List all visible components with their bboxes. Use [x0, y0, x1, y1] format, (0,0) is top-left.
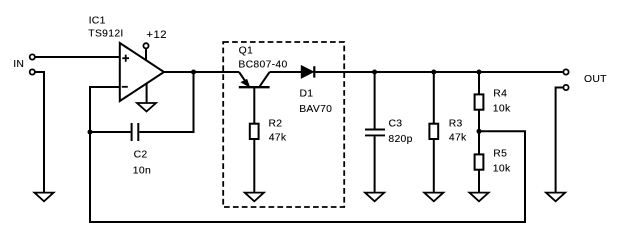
wire R2 to ground	[253, 140, 255, 192]
capacitor C3 top plate	[365, 129, 385, 131]
svg-text:R5: R5	[493, 149, 507, 160]
wire R5 to ground	[478, 170, 480, 192]
transistor Q1 emitter arrow	[242, 80, 249, 86]
node R3 junction dot	[431, 70, 436, 75]
transistor Q1 collector diagonal	[260, 72, 270, 86]
op-amp IC1 triangle	[120, 43, 164, 101]
svg-text:47k: 47k	[269, 132, 287, 143]
svg-text:IN: IN	[13, 59, 24, 70]
ground op-amp	[137, 103, 156, 111]
svg-text:BC807-40: BC807-40	[238, 60, 287, 71]
svg-text:R4: R4	[493, 89, 507, 100]
resistor R3 body	[429, 124, 438, 139]
svg-text:10k: 10k	[493, 164, 511, 175]
svg-text:BAV70: BAV70	[299, 104, 332, 115]
wire inverting input to feedback node	[90, 87, 119, 132]
svg-text:Q1: Q1	[239, 45, 253, 56]
wire R4 to R5	[478, 110, 480, 154]
wire Q1 base lead down to R2	[253, 87, 255, 124]
wire Q1 collector to diode D1	[270, 71, 302, 73]
wire C3 lower stem	[374, 136, 376, 192]
node output feedback junction dot	[191, 70, 196, 75]
wire feedback node to C2 left plate	[90, 131, 131, 133]
wire OUT lower to ground	[556, 88, 563, 193]
svg-text:R2: R2	[269, 119, 283, 130]
wire IN lower to left ground	[35, 72, 44, 192]
terminal IN upper circle	[30, 54, 35, 59]
svg-text:10n: 10n	[133, 165, 151, 176]
terminal IN lower circle	[30, 69, 35, 74]
wire IN upper to op-amp noninverting input	[35, 56, 119, 58]
op-amp minus input symbol	[122, 86, 128, 88]
wire C3 upper stem	[374, 72, 376, 129]
svg-text:+12: +12	[146, 29, 167, 41]
resistor R4 body	[475, 94, 484, 109]
svg-text:C3: C3	[389, 119, 403, 130]
diode D1 cathode bar	[313, 66, 315, 77]
svg-text:TS912I: TS912I	[88, 29, 123, 40]
wire +12 stem	[145, 49, 147, 61]
wire R4 upper stem	[478, 72, 480, 94]
wire feedback bottom run	[90, 131, 525, 222]
ground OUT	[546, 193, 565, 202]
op-amp plus input symbol	[122, 55, 129, 62]
resistor R5 body	[475, 154, 484, 169]
ground R5	[469, 193, 488, 202]
ground R2	[245, 193, 264, 202]
diode D1 anode triangle	[302, 66, 313, 77]
svg-text:47k: 47k	[449, 132, 467, 143]
transistor Q1 emitter diagonal	[239, 72, 248, 86]
terminal OUT upper circle	[563, 69, 568, 74]
dashed box around Q1 and D1	[223, 42, 344, 207]
svg-text:10k: 10k	[493, 104, 511, 115]
svg-text:D1: D1	[300, 89, 314, 100]
capacitor C2 right plate	[137, 123, 139, 141]
svg-text:R3: R3	[449, 119, 463, 130]
wire R3 upper stem	[433, 72, 435, 124]
svg-text:820p: 820p	[388, 134, 412, 145]
wire D1 to OUT terminal	[315, 71, 563, 73]
wire R3 to ground	[433, 140, 435, 192]
wire op-amp output to Q1 emitter	[164, 71, 239, 73]
wire op-amp ground stem	[146, 84, 148, 103]
capacitor C3 bottom plate	[365, 134, 385, 136]
terminal OUT lower circle	[563, 85, 568, 90]
transistor Q1 base bar	[239, 86, 270, 88]
ground left (IN return)	[34, 193, 53, 202]
node feedback C2 left dot	[88, 130, 93, 135]
node R4 R5 junction dot	[477, 129, 482, 134]
svg-text:C2: C2	[134, 149, 148, 160]
capacitor C2 left plate	[131, 123, 133, 141]
resistor R2 body	[250, 124, 259, 139]
wire junction down to C2 right plate	[139, 72, 193, 132]
node C3 junction dot	[372, 70, 377, 75]
node R4 junction dot	[477, 70, 482, 75]
svg-text:OUT: OUT	[584, 74, 607, 85]
ground C3	[365, 193, 384, 202]
svg-text:IC1: IC1	[89, 16, 106, 27]
ground R3	[424, 193, 443, 202]
+12 supply terminal circle	[143, 43, 148, 48]
